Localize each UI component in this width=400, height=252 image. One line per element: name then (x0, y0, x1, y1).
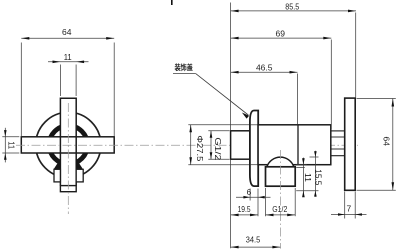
handle outer circle (36, 112, 101, 177)
46.5 right extension (297, 74, 299, 125)
svg-text:69: 69 (276, 29, 286, 39)
wall plate (right view) (345, 98, 356, 190)
handle horizontal bar fill (21, 137, 114, 153)
85.5 right extension (355, 13, 357, 99)
plate bottom extension (357, 189, 396, 191)
dimension 69 (231, 37, 332, 39)
common reference extension line (thread start plane) (230, 3, 232, 131)
dimension 11 (left, bar height, rotated) (2, 128, 19, 163)
valve body (258, 125, 331, 165)
escutcheon flange (pill profile) (250, 111, 258, 187)
body diameter extension lines (phi 27.5) (188, 124, 258, 126)
outlet left edge extension (265, 188, 267, 216)
svg-text:64: 64 (382, 136, 392, 146)
handle web wedge left (54, 159, 61, 170)
right stub thread lines (331, 130, 345, 132)
centerline vertical of handle (67, 103, 69, 214)
svg-text:11: 11 (303, 173, 312, 183)
dimension phi27.5 line (190, 125, 192, 165)
flange left face extension (249, 189, 251, 201)
inlet threaded stub (231, 131, 251, 159)
phi27.5 extension crossing flange (250, 124, 258, 126)
svg-text:G1/2: G1/2 (213, 137, 222, 161)
handle web wedge right (76, 159, 83, 170)
dimension 11 (outlet drop, rotated) (296, 164, 307, 166)
hub left tab (54, 169, 60, 182)
plate top extension (357, 98, 396, 100)
outlet rectangle (266, 167, 296, 186)
svg-text:11: 11 (7, 141, 17, 149)
dimension 19.5 (231, 214, 258, 216)
stray tick at top (171, 0, 173, 5)
stem rectangle (60, 186, 76, 192)
svg-text:19.5: 19.5 (238, 204, 251, 214)
svg-text:64: 64 (62, 27, 72, 37)
thread stub extension lines G1/2 (208, 130, 229, 132)
outlet dome arch (266, 157, 296, 167)
svg-text:装饰盖: 装饰盖 (174, 63, 194, 72)
dimension 7 (plate thickness) (344, 192, 346, 219)
svg-text:6: 6 (247, 187, 252, 197)
69 right extension (330, 40, 332, 130)
svg-text:85.5: 85.5 (285, 1, 299, 11)
dimension G1/2 (outlet) (266, 214, 296, 216)
svg-text:11: 11 (64, 52, 72, 62)
dimension 64 (top of left view) (21, 38, 114, 136)
dimension 11 (top, bar width) (48, 62, 89, 96)
dimension 34.5 (231, 246, 281, 248)
dimension 85.5 (231, 10, 356, 12)
flange right face extension (shared with 19.5) (257, 189, 259, 217)
dimension 46.5 (231, 71, 298, 73)
dimension 15.5 (rotated) (310, 156, 319, 158)
handle vertical bar outline (top + sides down to stem) (60, 98, 76, 185)
handle horizontal bar outline (21, 137, 114, 153)
svg-text:15.5: 15.5 (314, 169, 323, 186)
outlet centerline vertical (279, 150, 281, 249)
handle hub ring (thick inner circle) (49, 126, 87, 164)
svg-text:7: 7 (347, 203, 352, 213)
svg-text:Φ27.5: Φ27.5 (195, 135, 204, 162)
centerline horizontal (shared axis left+middle view) (16, 144, 358, 146)
svg-text:G1/2: G1/2 (272, 204, 287, 214)
body step line (297, 125, 299, 165)
svg-text:34.5: 34.5 (246, 235, 261, 245)
hub right tab (76, 169, 83, 182)
svg-text:46.5: 46.5 (256, 63, 273, 73)
dimension 64 (right, rotated) (392, 99, 394, 191)
dimension G1/2 line (outside arrows) (210, 131, 212, 159)
outlet right edge extension (294, 188, 296, 216)
handle vertical bar fill (60, 98, 76, 185)
